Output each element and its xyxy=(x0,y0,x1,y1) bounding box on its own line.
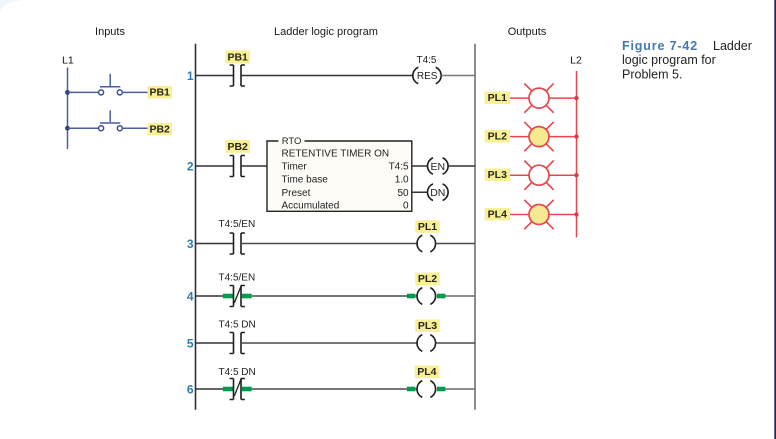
rung number 1 xyxy=(187,69,194,83)
contact T4:5 DN NC rung6 xyxy=(230,378,245,400)
label PB2 input xyxy=(148,123,173,136)
svg-text:T4:5: T4:5 xyxy=(389,162,409,173)
page corner tint top-left xyxy=(0,0,27,13)
svg-text:T4:5/EN: T4:5/EN xyxy=(219,273,256,284)
lamp PL1 xyxy=(524,83,553,112)
rung 6 wire middle xyxy=(252,388,417,390)
wire lamp PL3 to L2 xyxy=(549,174,577,176)
highlight right of contact rung6 xyxy=(242,387,252,392)
label PB2 rung2 xyxy=(226,140,251,153)
label PL1 output xyxy=(485,92,511,105)
rung 4 wire left xyxy=(196,295,234,297)
lamp PL3 xyxy=(524,161,553,190)
ladder right rail xyxy=(474,44,476,410)
timer function block RTO xyxy=(267,136,412,211)
label T4:5 DN rung6 xyxy=(219,367,256,378)
svg-text:5: 5 xyxy=(187,336,194,350)
wire label to lamp PL3 xyxy=(510,174,529,176)
rung 5 wire right xyxy=(436,342,475,344)
coil DN xyxy=(427,184,448,201)
svg-text:RETENTIVE TIMER ON: RETENTIVE TIMER ON xyxy=(282,149,390,160)
header Ladder logic program xyxy=(274,26,378,38)
coil PL2 xyxy=(417,288,436,305)
svg-text:EN: EN xyxy=(431,161,446,173)
contact PB1 NO rung1 xyxy=(230,65,245,86)
lamp PL2 lit xyxy=(524,122,553,151)
contact T4:5/EN NC rung4 xyxy=(230,285,245,307)
svg-text:PL4: PL4 xyxy=(488,209,507,221)
svg-text:PB1: PB1 xyxy=(227,52,248,64)
rung number 2 xyxy=(187,159,194,173)
svg-text:T4:5/EN: T4:5/EN xyxy=(219,219,256,230)
rung 2 wire to timer box xyxy=(241,165,268,167)
label PL3 rung5 xyxy=(415,320,440,333)
rung 4 wire right xyxy=(445,295,475,297)
svg-text:Timer: Timer xyxy=(282,162,308,173)
wire L1 to PB1 contact xyxy=(68,91,99,93)
rung 1 wire left xyxy=(196,75,234,77)
svg-text:1: 1 xyxy=(187,69,194,83)
wire box to DN coil xyxy=(412,191,428,193)
junction dot PL2 on L2 xyxy=(574,134,578,138)
rung 3 wire right xyxy=(436,243,475,245)
wire PB1 contact to label xyxy=(122,91,147,93)
wire lamp PL1 to L2 xyxy=(549,97,577,99)
svg-text:PB1: PB1 xyxy=(149,87,170,99)
svg-text:PL2: PL2 xyxy=(418,273,437,285)
label PB1 input xyxy=(148,86,173,99)
svg-text:2: 2 xyxy=(187,159,194,173)
rung 5 wire middle xyxy=(241,342,417,344)
contact T4:5/EN NO rung3 xyxy=(230,233,245,254)
svg-text:50: 50 xyxy=(397,188,409,199)
highlight left of contact rung4 xyxy=(223,294,233,299)
svg-text:Time base: Time base xyxy=(282,175,329,186)
pushbutton PB1 xyxy=(99,74,123,95)
coil EN xyxy=(427,158,448,175)
svg-text:PB2: PB2 xyxy=(149,124,170,136)
svg-text:logic program for: logic program for xyxy=(622,53,716,67)
contact T4:5 DN NO rung5 xyxy=(230,333,245,354)
rung number 3 xyxy=(187,237,194,251)
highlight left of contact rung6 xyxy=(223,387,233,392)
coil PL1 xyxy=(417,235,436,252)
rung 3 wire middle xyxy=(241,243,417,245)
svg-text:PL4: PL4 xyxy=(417,366,436,378)
header Inputs xyxy=(95,26,125,38)
rung number 6 xyxy=(187,382,194,396)
svg-text:6: 6 xyxy=(187,382,194,396)
wire lamp PL4 to L2 xyxy=(549,214,577,216)
svg-text:3: 3 xyxy=(187,237,194,251)
label T4:5 DN rung5 xyxy=(219,319,256,330)
page edge line right xyxy=(774,0,776,439)
pushbutton PB2 xyxy=(99,110,123,130)
svg-text:RTO: RTO xyxy=(282,136,302,147)
label T4:5/EN rung4 xyxy=(219,273,256,284)
lamp PL4 lit xyxy=(524,200,553,229)
junction dot PB2 branch xyxy=(65,126,70,131)
label T4:5 rung1 xyxy=(416,55,436,66)
coil PL3 xyxy=(417,335,436,352)
svg-text:4: 4 xyxy=(187,289,194,303)
wire label to lamp PL4 xyxy=(510,214,529,216)
label PL2 output xyxy=(485,130,511,143)
rung 6 wire right xyxy=(445,388,475,390)
rung 2 wire left xyxy=(196,165,234,167)
svg-text:PL3: PL3 xyxy=(418,320,437,332)
svg-text:Ladder logic program: Ladder logic program xyxy=(274,26,378,38)
wire label to lamp PL1 xyxy=(510,97,529,99)
junction dot PL3 on L2 xyxy=(574,173,578,177)
figure caption xyxy=(622,39,752,82)
label PB1 rung1 xyxy=(226,51,251,64)
coil RES T4:5 xyxy=(413,67,441,84)
svg-text:DN: DN xyxy=(430,187,445,199)
rung 5 wire left xyxy=(196,342,234,344)
svg-text:0: 0 xyxy=(403,201,409,212)
svg-text:PL2: PL2 xyxy=(488,131,507,143)
svg-text:Ladder: Ladder xyxy=(713,39,752,53)
rung 3 wire left xyxy=(196,243,234,245)
svg-text:L1: L1 xyxy=(62,55,74,67)
wire box to EN coil xyxy=(412,165,428,167)
junction dot PB1 branch xyxy=(65,90,70,95)
label PL1 rung3 xyxy=(415,220,440,233)
svg-text:T4:5 DN: T4:5 DN xyxy=(219,319,256,330)
svg-text:T4:5 DN: T4:5 DN xyxy=(219,367,256,378)
svg-text:RES: RES xyxy=(417,71,438,82)
svg-text:Preset: Preset xyxy=(282,188,311,199)
label PL3 output xyxy=(485,169,511,182)
svg-text:PL1: PL1 xyxy=(488,92,507,104)
rung number 4 xyxy=(187,289,194,303)
svg-text:1.0: 1.0 xyxy=(395,175,409,186)
wire lamp PL2 to L2 xyxy=(549,136,577,138)
svg-text:T4:5: T4:5 xyxy=(416,55,436,66)
highlight right of contact rung4 xyxy=(242,294,252,299)
coil PL4 xyxy=(417,381,436,398)
rung 1 wire right xyxy=(441,75,475,77)
svg-text:PL1: PL1 xyxy=(418,221,437,233)
svg-text:Accumulated: Accumulated xyxy=(282,201,340,212)
rung number 5 xyxy=(187,336,194,350)
label T4:5/EN rung3 xyxy=(219,219,256,230)
label PL2 rung4 xyxy=(415,273,440,286)
L2 power rail xyxy=(576,71,578,237)
ladder left rail xyxy=(195,44,197,410)
label PL4 rung6 xyxy=(415,366,440,379)
highlight right of coil rung4 xyxy=(437,294,446,299)
highlight right of coil rung6 xyxy=(437,387,446,392)
highlight left of coil rung4 xyxy=(407,294,416,299)
L1 power rail xyxy=(67,68,69,150)
svg-text:PL3: PL3 xyxy=(488,169,507,181)
rung 1 wire middle xyxy=(241,75,413,77)
node L2 label xyxy=(570,55,582,67)
svg-text:Figure 7-42: Figure 7-42 xyxy=(622,39,698,53)
highlight left of coil rung6 xyxy=(407,387,416,392)
wire EN coil to right rail xyxy=(448,165,475,167)
svg-text:PB2: PB2 xyxy=(227,141,248,153)
svg-text:Inputs: Inputs xyxy=(95,26,125,38)
svg-text:Problem 5.: Problem 5. xyxy=(622,67,682,81)
node L1 label xyxy=(62,55,74,67)
contact PB2 NO rung2 xyxy=(230,156,245,177)
rung 4 wire middle xyxy=(252,295,417,297)
wire L1 to PB2 contact xyxy=(68,127,99,129)
wire PB2 contact to label xyxy=(122,127,147,129)
svg-text:Outputs: Outputs xyxy=(508,26,547,38)
junction dot PL1 on L2 xyxy=(574,96,578,100)
svg-text:L2: L2 xyxy=(570,55,582,67)
wire label to lamp PL2 xyxy=(510,136,529,138)
rung 6 wire left xyxy=(196,388,234,390)
header Outputs xyxy=(508,26,547,38)
junction dot PL4 on L2 xyxy=(574,212,578,216)
label PL4 output xyxy=(485,208,511,221)
